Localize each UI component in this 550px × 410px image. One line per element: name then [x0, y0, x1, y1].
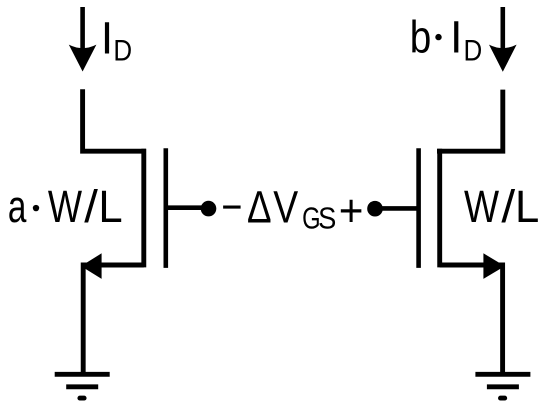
wire: gate lead of M1 [166, 205, 203, 210]
current source arrow ID (left) [69, 7, 97, 72]
svg-text:D: D [463, 34, 482, 67]
source arrow of M1 [81, 253, 102, 279]
svg-text:I: I [450, 11, 463, 62]
wire: drain of M2 [437, 90, 503, 152]
label ID (left current) [101, 12, 132, 66]
svg-text:b: b [410, 12, 432, 62]
svg-text:D: D [113, 34, 132, 67]
transistor M1 gate bar [164, 148, 169, 268]
svg-text:L: L [98, 182, 122, 232]
svg-text:L: L [515, 182, 539, 232]
transistor M2 gate bar [416, 148, 421, 268]
svg-text:Δ: Δ [247, 182, 272, 232]
svg-text:I: I [101, 12, 114, 63]
transistor M1 channel bar [141, 149, 146, 268]
label a·W/L (M1 size) [8, 181, 123, 232]
svg-text:/: / [84, 181, 99, 232]
svg-text:+: + [339, 186, 364, 236]
node dot (gate of M2, plus terminal) [367, 201, 383, 217]
node dot (gate of M1, minus terminal) [201, 201, 217, 217]
svg-text:/: / [501, 182, 516, 232]
svg-text:W: W [464, 181, 499, 231]
wire: source of M1 to ground [83, 265, 144, 375]
svg-text:−: − [221, 181, 242, 232]
ground (right) [475, 374, 530, 398]
current source arrow bID (right) [489, 7, 517, 72]
transistor M2 channel bar [437, 149, 442, 268]
svg-text:W: W [48, 181, 83, 232]
svg-text:a: a [8, 182, 27, 232]
label W/L (M2 size) [464, 181, 539, 232]
wire: source of M2 to ground [440, 265, 503, 375]
source arrow of M2 [483, 253, 504, 279]
wire: drain of M1 [83, 89, 146, 151]
ground (left) [55, 374, 110, 398]
wire: gate lead of M2 [382, 206, 418, 211]
svg-text:V: V [273, 182, 298, 232]
label -dVGS+ (GS subscript) [302, 201, 336, 237]
label b·ID (right current) [410, 11, 482, 66]
svg-text:S: S [318, 202, 336, 236]
